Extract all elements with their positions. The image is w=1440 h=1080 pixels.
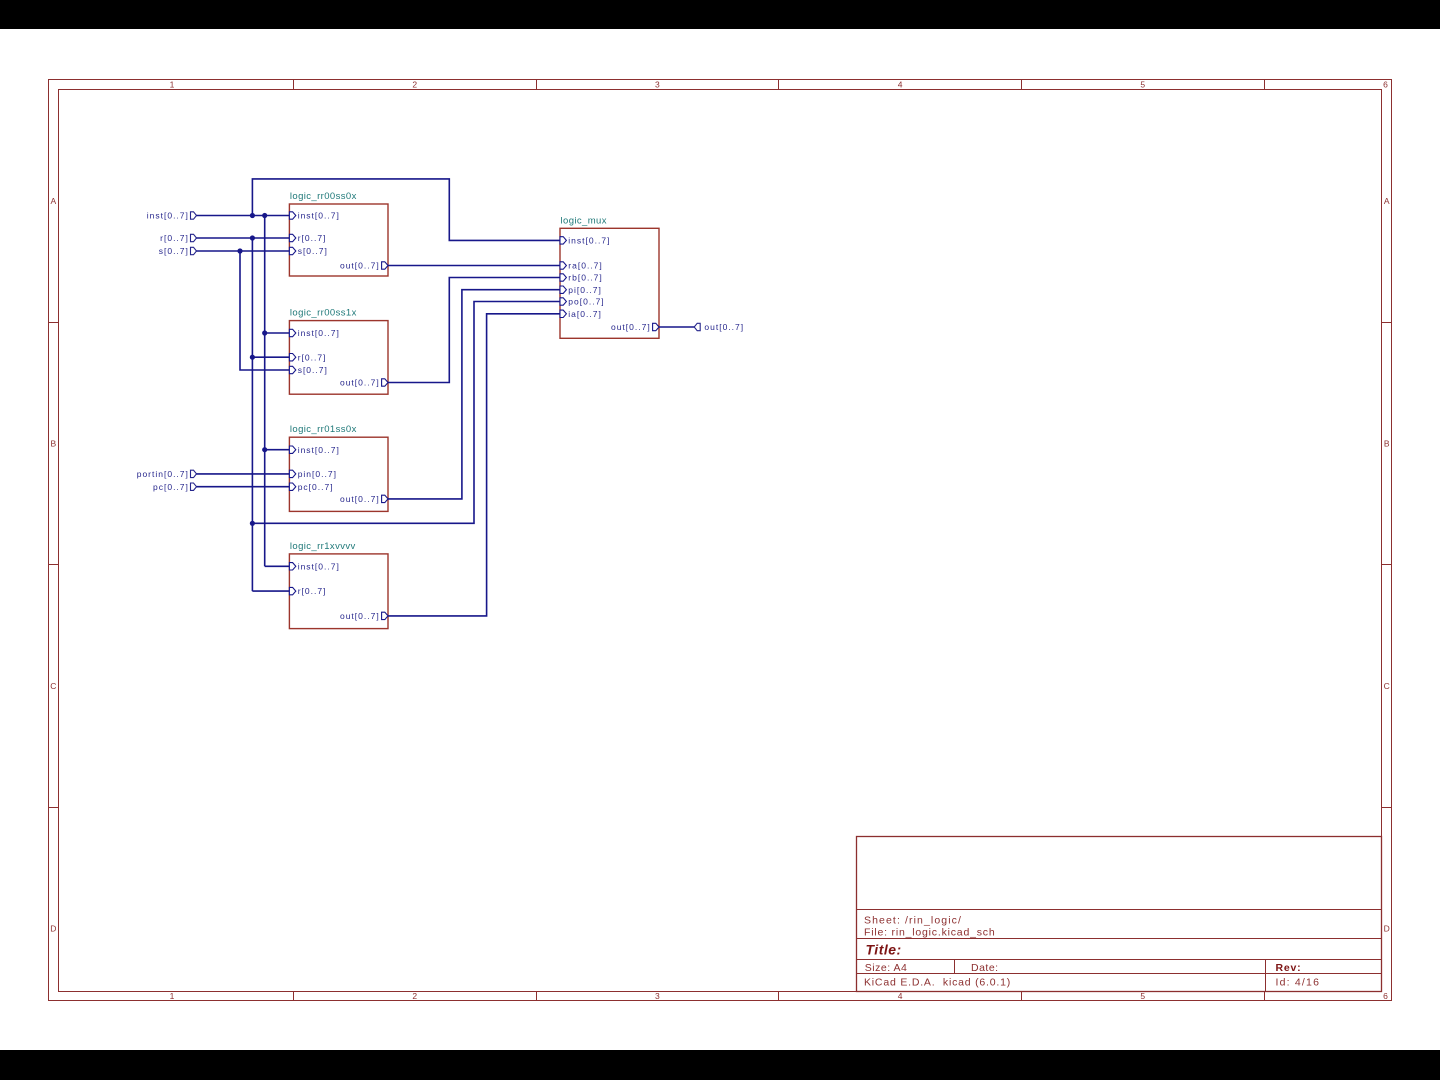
hierarchical sheet logic_mux <box>560 215 659 338</box>
svg-text:ra[0..7]: ra[0..7] <box>568 261 602 271</box>
svg-text:logic_rr00ss1x: logic_rr00ss1x <box>290 308 357 319</box>
sheet pin ia[0..7] of logic_mux <box>560 309 602 319</box>
svg-text:inst[0..7]: inst[0..7] <box>298 328 340 338</box>
wire r label to logic_rr00ss0x r <box>197 237 290 239</box>
svg-text:r[0..7]: r[0..7] <box>298 586 327 596</box>
hierarchical sheet logic_rr01ss0x <box>289 424 388 511</box>
wire inst net up to logic_mux inst <box>252 179 560 241</box>
wire r vertical bus down <box>251 238 253 591</box>
svg-text:D: D <box>1384 924 1390 934</box>
wire logic_rr1xvvvv out to logic_mux ia <box>388 314 560 616</box>
wire r net branch to logic_mux po <box>252 302 560 524</box>
junction at 240,251 <box>237 248 242 253</box>
sheet pin r[0..7] of logic_rr1xvvvv <box>289 586 326 596</box>
junction at 252.4,215.5 <box>250 213 255 218</box>
svg-text:out[0..7]: out[0..7] <box>704 322 744 332</box>
svg-text:rb[0..7]: rb[0..7] <box>568 273 602 283</box>
svg-text:A: A <box>1384 196 1390 206</box>
hierarchical sheet logic_rr00ss1x <box>289 308 388 395</box>
svg-text:pc[0..7]: pc[0..7] <box>298 482 334 492</box>
junction at 252.4,238 <box>250 235 255 240</box>
svg-text:2: 2 <box>412 79 417 89</box>
sheet pin out[0..7] of logic_mux <box>611 322 659 332</box>
svg-text:4: 4 <box>898 79 903 89</box>
svg-text:out[0..7]: out[0..7] <box>340 378 380 388</box>
hierarchical label s[0..7] <box>159 246 197 256</box>
wire pc label to logic_rr01ss0x pc <box>197 486 290 488</box>
sheet pin ra[0..7] of logic_mux <box>560 261 603 271</box>
svg-text:KiCad E.D.A. kicad (6.0.1): KiCad E.D.A. kicad (6.0.1) <box>864 976 1011 988</box>
junction at 264.7,333 <box>262 330 267 335</box>
svg-text:C: C <box>1384 681 1390 691</box>
sheet pin out[0..7] of logic_rr01ss0x <box>340 494 388 504</box>
svg-text:out[0..7]: out[0..7] <box>611 322 651 332</box>
svg-text:pi[0..7]: pi[0..7] <box>568 285 602 295</box>
sheet pin rb[0..7] of logic_mux <box>560 273 603 283</box>
sheet pin out[0..7] of logic_rr00ss0x <box>340 261 388 271</box>
wire inst branch to logic_rr01ss0x <box>265 449 290 451</box>
svg-text:inst[0..7]: inst[0..7] <box>298 561 340 571</box>
svg-text:pin[0..7]: pin[0..7] <box>298 469 337 479</box>
svg-text:Rev:: Rev: <box>1276 962 1302 974</box>
svg-text:pc[0..7]: pc[0..7] <box>153 482 189 492</box>
hierarchical label portin[0..7] <box>137 469 197 479</box>
hierarchical sheet logic_rr1xvvvv <box>289 541 388 629</box>
junction at 264.7,449.7 <box>262 447 267 452</box>
svg-text:out[0..7]: out[0..7] <box>340 494 380 504</box>
svg-text:logic_rr00ss0x: logic_rr00ss0x <box>290 191 357 202</box>
svg-text:r[0..7]: r[0..7] <box>160 233 189 243</box>
sheet pin inst[0..7] of logic_rr1xvvvv <box>289 561 339 571</box>
svg-text:3: 3 <box>655 79 660 89</box>
wire inst label to logic_rr00ss0x inst <box>197 215 290 217</box>
sheet pin po[0..7] of logic_mux <box>560 297 605 307</box>
svg-text:portin[0..7]: portin[0..7] <box>137 469 189 479</box>
sheet pin out[0..7] of logic_rr00ss1x <box>340 378 388 388</box>
svg-text:inst[0..7]: inst[0..7] <box>298 445 340 455</box>
svg-text:inst[0..7]: inst[0..7] <box>298 211 340 221</box>
svg-text:r[0..7]: r[0..7] <box>298 352 327 362</box>
wire logic_rr00ss0x out to logic_mux ra <box>388 265 560 267</box>
title block <box>857 837 1382 992</box>
svg-text:Id: 4/16: Id: 4/16 <box>1276 976 1321 988</box>
sheet pin inst[0..7] of logic_rr00ss1x <box>289 328 339 338</box>
svg-text:inst[0..7]: inst[0..7] <box>147 211 189 221</box>
hierarchical label pc[0..7] <box>153 482 196 492</box>
svg-text:5: 5 <box>1140 991 1145 1001</box>
sheet pin s[0..7] of logic_rr00ss0x <box>289 246 327 256</box>
svg-text:D: D <box>50 924 56 934</box>
hierarchical label inst[0..7] <box>147 211 197 221</box>
svg-text:Sheet: /rin_logic/: Sheet: /rin_logic/ <box>864 915 962 927</box>
sheet pin r[0..7] of logic_rr00ss0x <box>289 233 326 243</box>
sheet pin inst[0..7] of logic_rr00ss0x <box>289 211 339 221</box>
wire s vertical down <box>240 251 289 370</box>
junction at 252.4,523.3 <box>250 521 255 526</box>
wire inst branch to logic_rr00ss1x <box>265 332 290 334</box>
sheet pin inst[0..7] of logic_mux <box>560 236 610 246</box>
sheet pin pi[0..7] of logic_mux <box>560 285 602 295</box>
svg-text:logic_mux: logic_mux <box>561 215 607 226</box>
svg-text:Date:: Date: <box>971 962 999 974</box>
svg-text:C: C <box>50 681 56 691</box>
svg-text:logic_rr1xvvvv: logic_rr1xvvvv <box>290 541 356 552</box>
sheet pin pin[0..7] of logic_rr01ss0x <box>289 469 337 479</box>
svg-text:ia[0..7]: ia[0..7] <box>568 309 602 319</box>
svg-text:5: 5 <box>1140 79 1145 89</box>
sheet pin s[0..7] of logic_rr00ss1x <box>289 365 327 375</box>
wire r branch to logic_rr00ss1x <box>252 356 289 358</box>
wire logic_rr01ss0x out to logic_mux pi <box>388 290 560 499</box>
wire logic_mux out to out label <box>659 326 694 328</box>
junction at 252.4,357.2 <box>250 355 255 360</box>
svg-text:s[0..7]: s[0..7] <box>298 365 328 375</box>
hierarchical label r[0..7] <box>160 233 196 243</box>
svg-text:r[0..7]: r[0..7] <box>298 233 327 243</box>
svg-text:po[0..7]: po[0..7] <box>568 297 604 307</box>
sheet pin out[0..7] of logic_rr1xvvvv <box>340 611 388 621</box>
junction at 264.7,215.5 <box>262 213 267 218</box>
hierarchical label out[0..7] <box>694 322 744 332</box>
wire r branch to logic_rr1xvvvv <box>252 590 289 592</box>
svg-text:out[0..7]: out[0..7] <box>340 261 380 271</box>
svg-text:1: 1 <box>170 79 175 89</box>
sheet pin inst[0..7] of logic_rr01ss0x <box>289 445 339 455</box>
wire s label to logic_rr00ss0x s <box>197 250 290 252</box>
svg-text:B: B <box>50 439 56 449</box>
wire inst vertical bus down <box>264 216 266 567</box>
svg-text:s[0..7]: s[0..7] <box>298 246 328 256</box>
hierarchical sheet logic_rr00ss0x <box>289 191 388 276</box>
svg-text:s[0..7]: s[0..7] <box>159 246 189 256</box>
svg-text:A: A <box>50 196 56 206</box>
svg-text:1: 1 <box>170 991 175 1001</box>
wire logic_rr00ss1x out to logic_mux rb <box>388 278 560 383</box>
svg-text:out[0..7]: out[0..7] <box>340 611 380 621</box>
svg-text:logic_rr01ss0x: logic_rr01ss0x <box>290 424 357 435</box>
wire inst branch to logic_rr1xvvvv <box>265 565 290 567</box>
svg-text:6: 6 <box>1383 991 1388 1001</box>
svg-text:2: 2 <box>412 991 417 1001</box>
svg-text:B: B <box>1384 439 1390 449</box>
svg-text:3: 3 <box>655 991 660 1001</box>
sheet pin r[0..7] of logic_rr00ss1x <box>289 352 326 362</box>
svg-text:File: rin_logic.kicad_sch: File: rin_logic.kicad_sch <box>864 927 995 939</box>
sheet pin pc[0..7] of logic_rr01ss0x <box>289 482 333 492</box>
svg-text:4: 4 <box>898 991 903 1001</box>
svg-text:Title:: Title: <box>866 942 902 958</box>
svg-text:6: 6 <box>1383 79 1388 89</box>
svg-text:inst[0..7]: inst[0..7] <box>568 236 610 246</box>
svg-text:Size: A4: Size: A4 <box>865 962 908 974</box>
wire portin label to logic_rr01ss0x pin <box>197 473 290 475</box>
